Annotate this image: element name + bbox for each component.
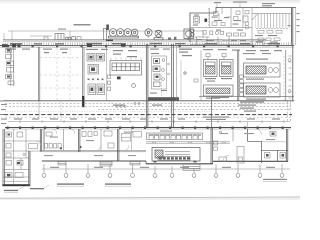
porch step 1	[58, 162, 66, 165]
room labels lower building	[44, 131, 275, 157]
left wing outer wall	[3, 129, 4, 186]
dot row	[88, 79, 104, 81]
small box	[77, 37, 81, 40]
corridor wall	[42, 150, 146, 151]
shaft rect	[237, 147, 244, 164]
plan bottom wall	[3, 100, 294, 102]
right dim ticks	[289, 56, 292, 98]
tower dark cap	[106, 25, 109, 31]
vertical link right dashes	[288, 101, 291, 121]
lower building bottom wall right	[213, 160, 288, 162]
pump row symbols	[203, 31, 246, 37]
hatch groups on conveyor	[152, 142, 226, 143]
unit labels	[205, 78, 232, 82]
wall left room	[38, 47, 39, 101]
fan circle with X	[154, 30, 163, 40]
dark cluster at left of top wall	[2, 44, 126, 48]
dark cabinet	[205, 19, 208, 22]
equipment cluster A	[87, 54, 105, 62]
bathroom fixtures	[265, 132, 286, 159]
thin partition in right room	[180, 60, 182, 100]
small pipes on baseline left	[44, 37, 48, 40]
interior partitions lower building	[64, 129, 234, 150]
hopper block on baseline	[55, 34, 64, 40]
equipment block 2	[152, 148, 200, 162]
right zone boundary	[200, 50, 202, 101]
left wing bottom wall	[2, 184, 30, 186]
wall before machines	[237, 50, 238, 101]
dashed vline right zone	[283, 56, 285, 100]
extra marks top-right plan	[212, 11, 249, 30]
porch step 4	[183, 164, 200, 170]
misc marks between	[168, 37, 176, 40]
low unit	[204, 85, 234, 96]
lower building bottom wall left	[42, 160, 146, 162]
fixtures rows in joist room	[258, 31, 282, 46]
faint bottom rule	[0, 197, 300, 198]
plan bottom inner wall	[199, 96, 294, 98]
lower building bottom wall mid	[146, 163, 213, 165]
top-right plan partitions	[190, 8, 252, 45]
scan edge band top	[0, 0, 300, 1]
vertical link left	[38, 101, 40, 119]
twin square units	[204, 60, 234, 77]
small room marks	[214, 11, 249, 22]
vertical link center	[211, 97, 213, 127]
right dim bubbles	[288, 59, 291, 93]
wall right of machines	[285, 50, 287, 101]
door arcs lower building	[18, 129, 262, 165]
table room 3	[108, 132, 142, 149]
joist grid room	[255, 14, 291, 29]
labels above platform	[113, 50, 137, 57]
machine 1	[244, 63, 281, 77]
dark wall segment lower center	[148, 97, 179, 100]
partition room 3	[131, 129, 133, 150]
title text: Plan at elev	[58, 24, 91, 30]
room text and dot	[179, 49, 192, 57]
small marks in big room	[44, 52, 67, 53]
conveyor dashed line 2	[5, 106, 291, 108]
equipment column center	[152, 56, 167, 89]
left wing fixtures	[5, 132, 38, 178]
wall with dark pier	[82, 47, 84, 108]
scan edge band bottom	[0, 198, 300, 200]
grid bubbles	[42, 174, 284, 178]
fixtures room 1	[45, 132, 62, 148]
machine 2	[244, 83, 281, 97]
dark pier bar	[82, 96, 84, 107]
equipment strip top	[147, 133, 203, 140]
equipment cluster B	[88, 65, 99, 75]
heavy dashed line	[4, 114, 292, 116]
left wing partitions	[3, 129, 41, 184]
conveyor labels	[113, 105, 256, 112]
center wall 1	[146, 44, 148, 128]
right outer wall	[286, 129, 287, 161]
top-right plan outer walls	[190, 8, 296, 102]
dotted line	[5, 111, 210, 113]
thin wall	[176, 45, 178, 101]
porch step 3	[130, 162, 140, 165]
joist dot row	[257, 28, 288, 29]
dashed drop line	[161, 75, 163, 101]
text near bottom wall right	[212, 97, 229, 98]
fan twin circles	[191, 29, 195, 36]
porch step 2	[100, 162, 112, 167]
center wall 2	[172, 44, 174, 128]
big room dashed lines	[40, 48, 81, 100]
trolley wheels	[66, 37, 76, 40]
top dim tick band	[2, 42, 292, 45]
left column marks of platform	[108, 75, 111, 91]
top wall piers	[7, 45, 279, 48]
dark segment on baseline	[106, 39, 113, 41]
cyclone circles	[109, 29, 153, 38]
boxed circle	[184, 29, 194, 39]
fixtures room 2	[82, 131, 112, 137]
left wing inner wall upper	[40, 129, 41, 152]
equipment cluster C	[88, 84, 105, 95]
wall piers	[7, 127, 284, 129]
L-wall right section	[248, 129, 289, 163]
text blob row over tick band	[10, 43, 280, 45]
top dimension line	[4, 31, 203, 40]
conveyor dashed line 3	[98, 109, 291, 111]
left wing inner wall lower	[29, 151, 30, 186]
caption left	[4, 188, 44, 191]
misc marks lower rooms of top-right plan	[187, 17, 278, 43]
secondary text row below top wall	[6, 49, 282, 55]
window symbol room	[194, 17, 200, 24]
section baseline	[3, 39, 266, 41]
caption mid 2	[105, 183, 131, 184]
tower	[103, 29, 107, 40]
thin dashed below heavy	[5, 116, 290, 118]
bottom dim line	[42, 168, 290, 170]
platform table	[110, 61, 142, 76]
circle fixture	[132, 84, 136, 88]
notes above top-right plan	[214, 1, 275, 6]
feeder marks above twin units	[206, 54, 226, 60]
caption right	[263, 179, 287, 180]
left margin equipment column	[6, 47, 15, 86]
lower building top wall	[5, 127, 291, 129]
vertical link dashed	[60, 101, 62, 121]
dim row above lower building	[8, 121, 290, 123]
dark box under platform	[117, 77, 121, 80]
caption mid 1	[57, 183, 84, 184]
main plan top wall	[0, 45, 294, 47]
platform room left wall	[105, 47, 107, 101]
circle fixture right room	[219, 131, 222, 134]
dim ticks above platform	[111, 58, 141, 60]
conveyor roller symbols	[116, 102, 140, 107]
dashed service line top-right plan	[207, 8, 209, 26]
extra marks center column	[150, 53, 167, 94]
right dim extension	[295, 8, 297, 46]
conveyor pair lines	[146, 142, 230, 143]
left edge dim text	[1, 104, 7, 124]
left edge stubs	[0, 101, 4, 115]
conveyor dashed line 1	[5, 103, 291, 105]
ladder strip	[240, 75, 243, 96]
